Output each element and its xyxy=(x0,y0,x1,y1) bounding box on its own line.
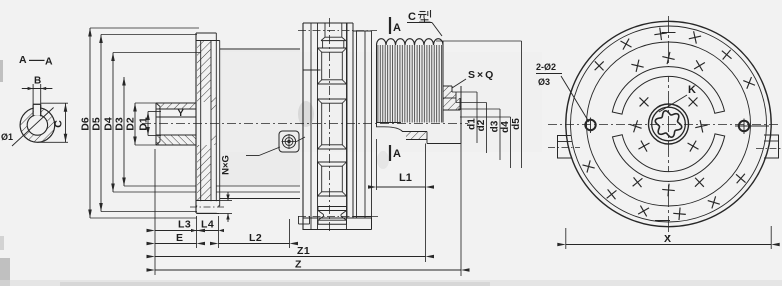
shaft outer circle xyxy=(20,108,55,143)
dimension B extension lines xyxy=(32,84,34,104)
dimension Z1 line xyxy=(155,256,426,258)
2-Ø2 leader xyxy=(561,76,589,122)
dimension L2 line xyxy=(219,243,290,245)
flange bottom edge xyxy=(196,212,216,214)
flange bolt hole xyxy=(197,200,220,202)
lower arc slot xyxy=(613,134,725,181)
wheel rim inner line xyxy=(303,69,321,71)
groove boundary circle xyxy=(587,42,751,206)
flange web hatching upper xyxy=(197,41,211,102)
shaft bottom line xyxy=(427,143,461,145)
svg-text:L4: L4 xyxy=(201,219,214,231)
flange hub hatching xyxy=(211,96,216,111)
dimension L1 line xyxy=(377,186,426,188)
svg-text:d4: d4 xyxy=(500,121,511,133)
flange step line xyxy=(215,33,217,213)
dimension d5 connector xyxy=(436,40,522,42)
svg-text:Ø1: Ø1 xyxy=(1,132,13,142)
keyway diagonal / leader Ø1 xyxy=(12,108,54,147)
svg-text:K: K xyxy=(688,84,696,96)
wheel top edge xyxy=(303,22,353,24)
dimension d2 connector xyxy=(456,102,487,104)
svg-text:C: C xyxy=(408,11,416,23)
dimension Z line xyxy=(155,269,461,271)
wheel window 3 xyxy=(318,162,347,196)
flange inner line xyxy=(210,41,212,206)
dimension d1 connector xyxy=(452,91,477,93)
shaft step hatching xyxy=(443,86,460,110)
oil cup body xyxy=(279,131,299,152)
wheel left face xyxy=(302,23,304,230)
svg-text:E: E xyxy=(176,232,184,244)
flange bolt centerline xyxy=(190,206,226,208)
casting surface cross marks xyxy=(743,81,755,86)
svg-text:d3: d3 xyxy=(490,120,501,132)
dimension L3 extensions xyxy=(196,216,198,248)
svg-text:Y: Y xyxy=(178,108,185,119)
drum top edge xyxy=(220,48,300,50)
hub sleeve left face xyxy=(155,103,157,145)
right view vertical centerline xyxy=(668,16,670,238)
dimension L1 extensions xyxy=(376,139,378,190)
hub sleeve wall hatching xyxy=(156,103,197,109)
wheel window 1 xyxy=(318,48,347,84)
dimension B line xyxy=(22,88,53,90)
svg-text:A: A xyxy=(45,56,53,68)
dimension L4 line xyxy=(197,230,219,232)
section marker A bottom xyxy=(389,145,391,161)
dimension d4 connector xyxy=(460,116,511,118)
wheel web verticals xyxy=(317,23,319,230)
shaft end face xyxy=(460,86,462,144)
wheel top bolt axis xyxy=(298,30,377,32)
svg-text:S×Q: S×Q xyxy=(468,69,495,81)
svg-text:X: X xyxy=(664,233,671,245)
dimension Z1 right extension xyxy=(425,187,427,262)
wheel bottom band xyxy=(303,217,372,219)
keyway slot xyxy=(32,104,34,116)
dimension left extension line xyxy=(154,149,156,275)
right mounting hole xyxy=(739,121,749,131)
svg-text:D1: D1 xyxy=(138,117,150,131)
hub sleeve bore bottom xyxy=(156,134,197,136)
shaft bore circle xyxy=(27,115,47,135)
svg-text:A: A xyxy=(19,54,27,66)
dimension NxG arrows xyxy=(227,192,229,201)
wheel bottom bolt xyxy=(318,206,347,208)
svg-text:Z1: Z1 xyxy=(297,245,310,257)
svg-text:Ø3: Ø3 xyxy=(538,77,550,87)
sheave rim right edge xyxy=(442,41,444,123)
svg-text:B: B xyxy=(34,76,41,87)
svg-text:L2: L2 xyxy=(249,232,262,244)
main centerline xyxy=(142,123,468,125)
drum bottom edge xyxy=(220,198,300,200)
svg-text:A: A xyxy=(393,22,401,34)
SxQ leader xyxy=(452,79,466,88)
sheave rim left edge xyxy=(376,45,378,123)
svg-text:D2: D2 xyxy=(125,117,137,131)
dimension C extension lines xyxy=(41,102,68,104)
svg-text:2-Ø2: 2-Ø2 xyxy=(536,62,556,72)
wheel bottom edge xyxy=(303,229,353,231)
K leader xyxy=(659,95,687,112)
dimension d3 connector xyxy=(458,108,500,110)
shaft step outline xyxy=(443,85,452,87)
dimension L2 right extension xyxy=(289,219,291,248)
left mounting hole xyxy=(585,120,595,130)
dimension D6 xyxy=(89,28,91,218)
dimension L3 line xyxy=(155,230,197,232)
hub outer circle xyxy=(649,104,689,144)
wheel window 2 xyxy=(318,99,347,149)
rim inner circle xyxy=(571,26,767,222)
wheel bottom left step xyxy=(298,216,300,224)
svg-text:A: A xyxy=(393,148,401,160)
wheel vertical centerline xyxy=(329,18,331,234)
wheel right face xyxy=(346,23,348,218)
wheel bottom right block xyxy=(371,218,373,230)
section marker A top xyxy=(389,17,391,34)
svg-text:C: C xyxy=(53,120,65,128)
dimension C line xyxy=(65,103,67,142)
sheave hub hatching xyxy=(406,132,427,140)
flange top edge xyxy=(196,32,216,34)
right lug xyxy=(764,135,779,158)
oil cup cross ticks xyxy=(282,141,297,143)
splined bore K xyxy=(655,111,681,137)
dimension D3 bottom extension xyxy=(124,185,196,187)
hub sleeve bore top xyxy=(156,116,197,118)
sheave rim bottom xyxy=(377,122,402,124)
hub keyway slot floor xyxy=(156,108,197,110)
dimension D5 xyxy=(100,35,102,212)
hub sleeve outer wall bottom xyxy=(156,144,197,146)
dimension X extensions xyxy=(565,228,567,249)
sheave rim crest profile xyxy=(377,39,444,45)
paper tone wash xyxy=(220,50,300,186)
flange web hatching lower xyxy=(197,145,211,200)
rim outer circle xyxy=(566,21,771,226)
wheel top bolt xyxy=(324,23,326,37)
dimension D4 xyxy=(112,53,114,193)
flange second face xyxy=(200,41,202,206)
sheave rim grooves fill xyxy=(377,45,444,123)
svg-text:D5: D5 xyxy=(91,117,103,131)
hub sleeve outer wall top xyxy=(156,102,197,104)
dimension D2 xyxy=(134,103,136,145)
svg-text:N×G: N×G xyxy=(221,155,232,175)
hub ring circle xyxy=(652,107,686,141)
sheave side plate xyxy=(356,31,358,218)
dimension X line xyxy=(566,244,771,246)
oil cup leader xyxy=(246,155,259,157)
svg-text:d5: d5 xyxy=(511,118,522,130)
oil cup rings xyxy=(282,135,295,148)
upper arc slot xyxy=(612,67,724,114)
svg-text:L1: L1 xyxy=(399,172,412,184)
dimension D1 xyxy=(147,112,149,136)
svg-text:L3: L3 xyxy=(178,219,191,231)
dimension D3 xyxy=(123,77,125,186)
dimension E line xyxy=(155,243,197,245)
flange right face xyxy=(219,41,221,207)
lug centerline xyxy=(548,147,580,149)
left lug xyxy=(558,136,573,159)
dimension Z right extension xyxy=(460,144,462,277)
shaft section hatching xyxy=(20,108,55,143)
dimension D4 bottom extension xyxy=(113,191,196,193)
flange left face xyxy=(195,33,197,213)
wheel bottom bolt axis xyxy=(298,215,378,217)
label C-type underline and leader xyxy=(407,22,432,24)
right view horizontal centerline xyxy=(548,124,780,126)
svg-text:d2: d2 xyxy=(476,119,487,131)
svg-text:Z: Z xyxy=(295,259,302,271)
